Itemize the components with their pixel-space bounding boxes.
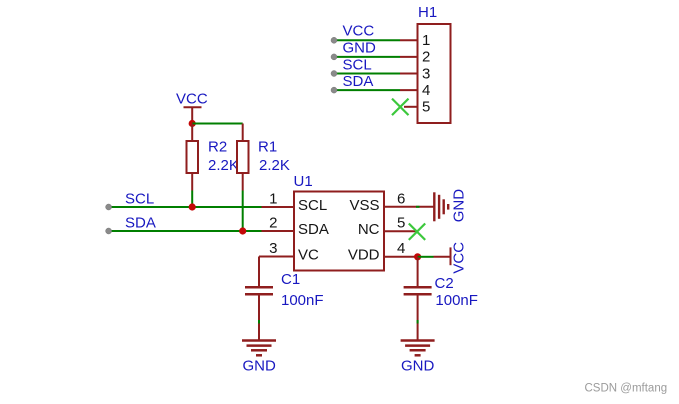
- wire tick on VSS pin: [416, 206, 420, 208]
- svg-text:NC: NC: [358, 221, 380, 238]
- svg-text:CSDN @mftang: CSDN @mftang: [585, 382, 668, 394]
- svg-text:4: 4: [422, 82, 430, 99]
- pin U1.3 VC: [259, 240, 319, 264]
- svg-text:VC: VC: [298, 247, 319, 264]
- junction VDD node: [414, 253, 421, 260]
- wire SDA to H1.4: [335, 89, 400, 91]
- svg-text:VSS: VSS: [349, 197, 379, 214]
- svg-text:2.2K: 2.2K: [208, 157, 239, 174]
- svg-text:C1: C1: [281, 271, 300, 288]
- junction SCL/R2: [189, 203, 196, 210]
- pin U1.4 VDD: [348, 240, 418, 264]
- svg-text:2: 2: [269, 215, 277, 232]
- junction SDA/R1: [239, 227, 246, 234]
- wire tick C2 to GND: [417, 320, 419, 324]
- wire R1 to SDA junction: [242, 191, 244, 232]
- svg-text:3: 3: [422, 65, 430, 82]
- svg-text:2.2K: 2.2K: [259, 157, 290, 174]
- svg-text:R2: R2: [208, 138, 227, 155]
- op-amp U1 body: [294, 192, 384, 271]
- svg-text:VCC: VCC: [451, 242, 468, 274]
- svg-text:4: 4: [397, 240, 405, 257]
- node dot SCL wire end: [331, 71, 337, 77]
- ground symbol GND (C2): [401, 341, 435, 356]
- node dot SDA left end: [106, 228, 112, 234]
- no-connect X on pin U1.5: [409, 224, 425, 240]
- svg-text:GND: GND: [451, 189, 468, 223]
- svg-text:SCL: SCL: [125, 191, 154, 208]
- svg-text:VCC: VCC: [176, 91, 208, 108]
- svg-text:SDA: SDA: [125, 215, 156, 232]
- node dot VCC wire end: [331, 37, 337, 43]
- wire GND to H1.2: [335, 56, 400, 58]
- power symbol VCC top: [184, 107, 202, 123]
- svg-text:C2: C2: [435, 275, 454, 292]
- ground symbol GND right (rotated): [434, 192, 448, 221]
- pin H1.2: [400, 49, 430, 66]
- pin U1.2 SDA: [262, 215, 329, 238]
- svg-text:R1: R1: [258, 138, 277, 155]
- resistor R2: [187, 124, 199, 191]
- svg-text:SDA: SDA: [298, 221, 329, 238]
- pin U1.6 VSS: [349, 191, 434, 215]
- svg-text:SDA: SDA: [343, 73, 374, 90]
- svg-text:U1: U1: [294, 173, 313, 190]
- capacitor C2: [404, 257, 432, 340]
- pin H1.1: [400, 32, 430, 49]
- pin H1.5: [404, 99, 430, 116]
- connector H1 body: [418, 24, 451, 123]
- pin H1.4: [400, 82, 430, 99]
- wire SCL to H1.3: [335, 73, 400, 75]
- svg-text:GND: GND: [401, 357, 435, 374]
- svg-text:2: 2: [422, 49, 430, 66]
- node dot SCL left end: [106, 204, 112, 210]
- wire SDA horizontal: [110, 230, 262, 232]
- svg-text:VCC: VCC: [343, 23, 375, 40]
- capacitor C1: [245, 257, 273, 341]
- svg-text:5: 5: [397, 215, 405, 232]
- svg-text:1: 1: [422, 32, 430, 49]
- junction VCC node: [189, 120, 196, 127]
- svg-text:100nF: 100nF: [281, 292, 324, 309]
- wire VDD node to VCC stub: [418, 256, 434, 258]
- no-connect X on pin H1.5: [392, 99, 409, 116]
- svg-text:VDD: VDD: [348, 247, 380, 264]
- svg-text:1: 1: [269, 191, 277, 208]
- svg-text:3: 3: [269, 240, 277, 257]
- power symbol VCC right (rotated): [434, 247, 451, 265]
- pin U1.1 SCL: [262, 191, 328, 214]
- svg-text:SCL: SCL: [343, 56, 372, 73]
- svg-text:GND: GND: [243, 357, 277, 374]
- svg-text:5: 5: [422, 99, 430, 116]
- node dot GND wire end: [331, 54, 337, 60]
- wire SCL horizontal: [110, 206, 262, 208]
- wire tick C1 to GND: [258, 320, 260, 324]
- resistor R1: [237, 124, 249, 191]
- pin U1.5 NC: [358, 215, 416, 239]
- svg-text:H1: H1: [418, 4, 437, 21]
- ground symbol GND (C1): [242, 341, 276, 356]
- wire VCC to H1.1: [335, 39, 400, 41]
- svg-text:6: 6: [397, 191, 405, 208]
- svg-text:GND: GND: [343, 39, 377, 56]
- pin H1.3: [400, 65, 430, 82]
- svg-text:100nF: 100nF: [435, 292, 478, 309]
- node dot SDA wire end: [331, 87, 337, 93]
- svg-text:SCL: SCL: [298, 197, 327, 214]
- wire R2 to SCL junction: [191, 191, 193, 208]
- wire VCC node to R1: [192, 123, 243, 125]
